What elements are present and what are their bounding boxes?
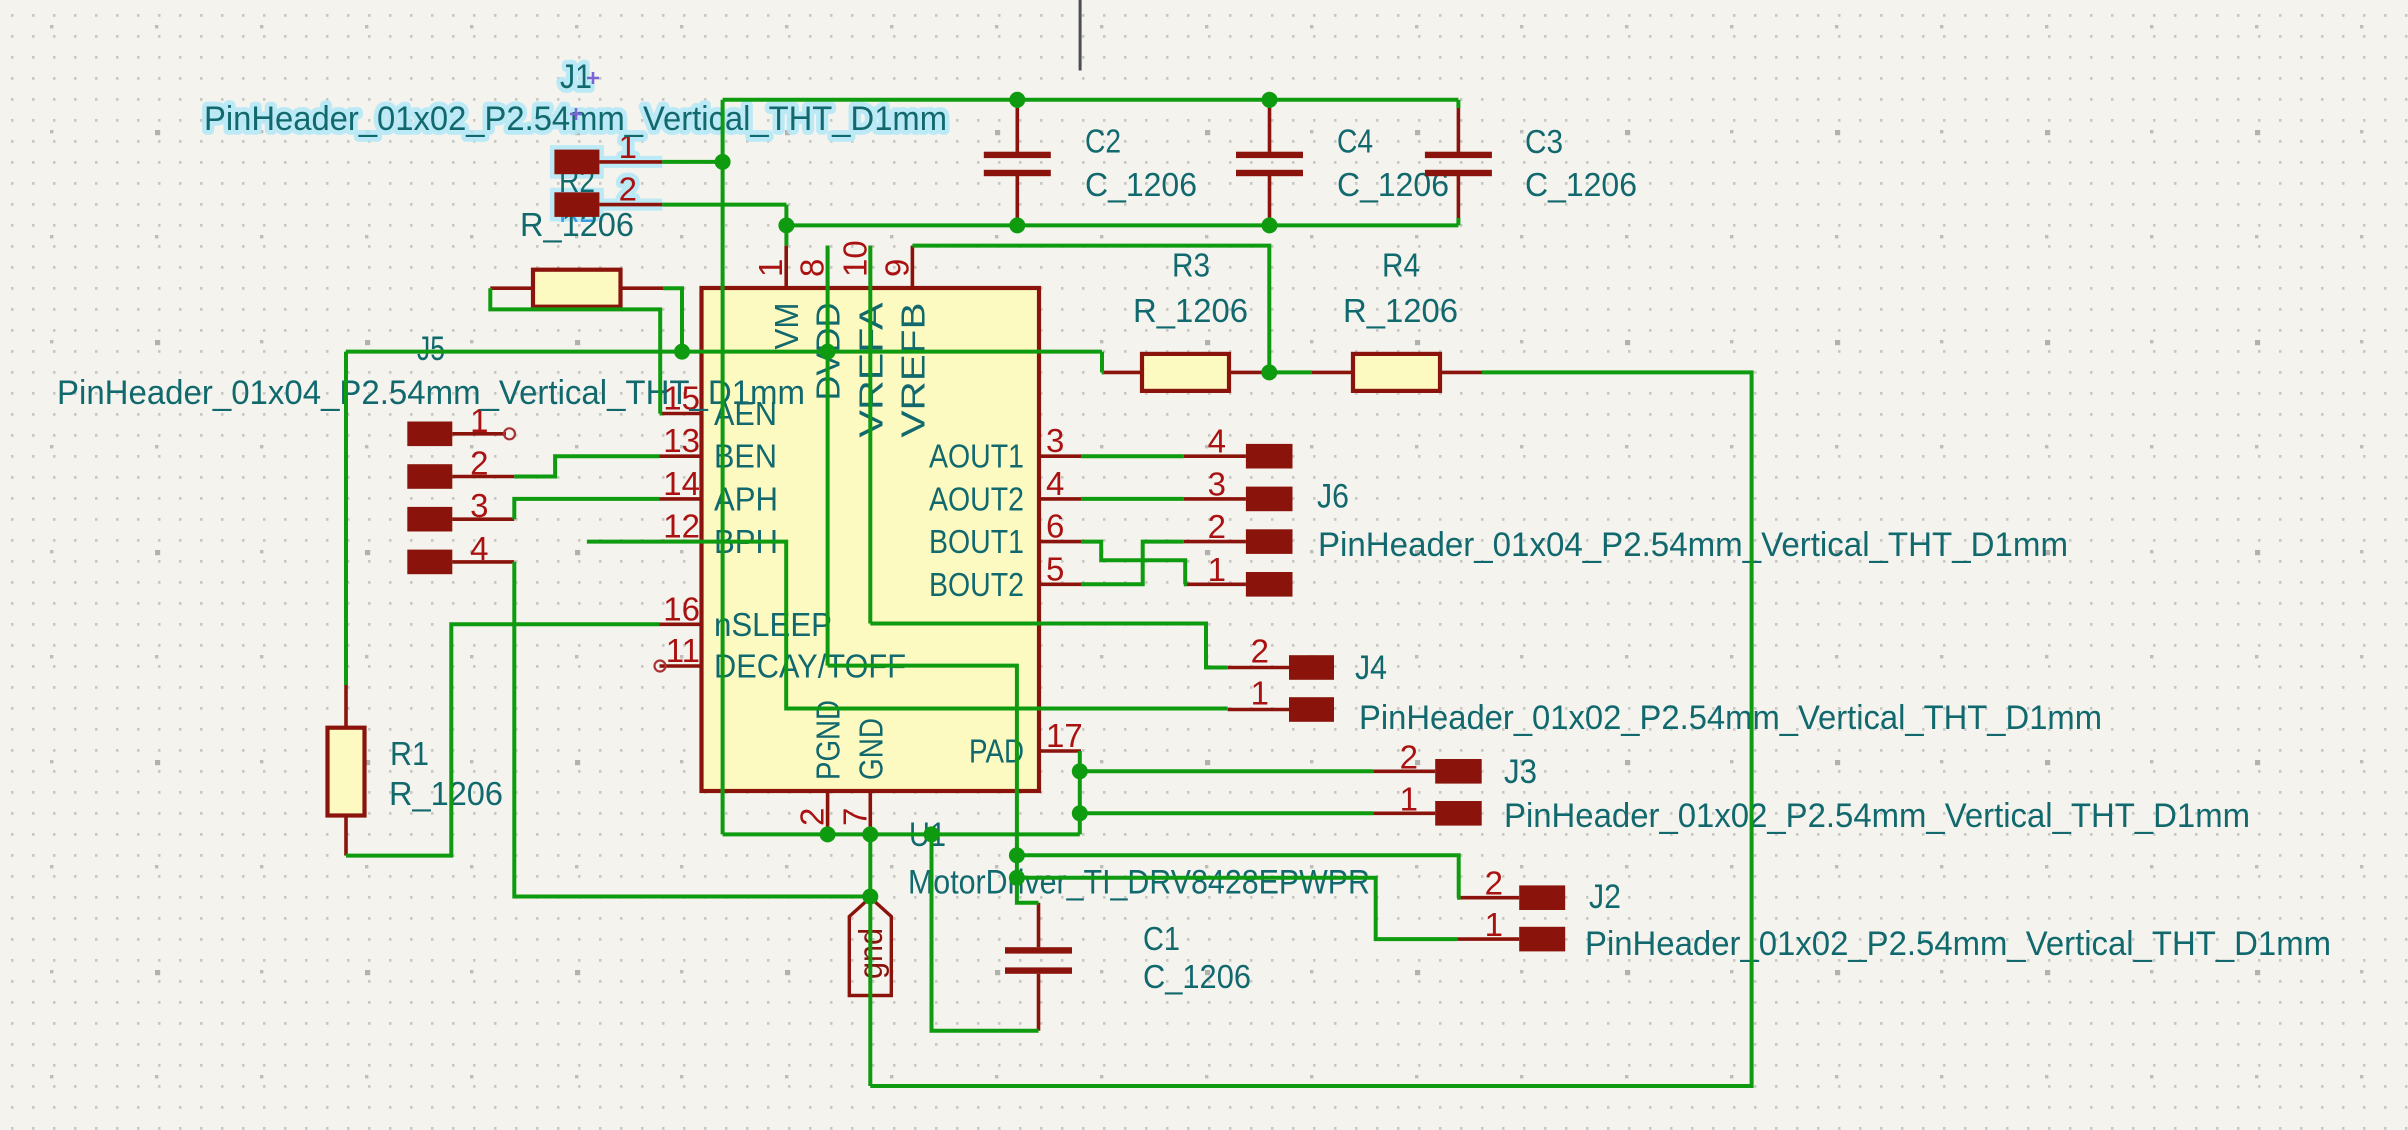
junction at 1079.8,813.3	[1072, 805, 1088, 821]
svg-text:6: 6	[1046, 508, 1064, 545]
U1 pin name VM	[768, 303, 805, 350]
U1 pin 11 unconnected circle	[655, 661, 666, 672]
svg-text:BOUT1: BOUT1	[929, 523, 1024, 560]
connector J4 pin 2 stub	[1228, 666, 1289, 670]
svg-text:3: 3	[1046, 422, 1064, 459]
wire C3 bottom connection	[1456, 218, 1460, 225]
svg-text:2: 2	[1251, 633, 1269, 670]
svg-text:AOUT1: AOUT1	[929, 438, 1024, 475]
wire gnd bus bottom of U1	[723, 832, 1080, 836]
U1 pin 17 stub	[1039, 749, 1081, 753]
connector J1 pad 1	[554, 150, 599, 175]
U1 pin 5 stub	[1039, 582, 1081, 586]
connector J5 pin 3 stub	[452, 517, 514, 521]
U1 pin name VREFA	[852, 303, 889, 438]
connector J4 pin 1 stub	[1228, 708, 1289, 712]
svg-text:R1: R1	[390, 735, 429, 772]
svg-text:14: 14	[663, 465, 700, 502]
wire J5 pad2 to BEN	[514, 456, 659, 476]
svg-text:AOUT2: AOUT2	[929, 480, 1024, 517]
wire main mid rail R2/DVDD/R3	[346, 350, 1102, 354]
U1 pin 7 stub	[868, 791, 872, 834]
svg-text:9: 9	[878, 259, 915, 277]
wire J5 pad3 to APH	[514, 499, 659, 519]
wire C2 bottom connection	[1015, 218, 1019, 225]
svg-text:R_1206: R_1206	[1133, 292, 1248, 329]
resistor R1 body	[328, 728, 365, 816]
svg-text:J3: J3	[1504, 753, 1537, 791]
wire C2 top connection	[1015, 100, 1019, 108]
wire J5 pad4 to gnd rail	[514, 562, 870, 897]
svg-text:7: 7	[836, 808, 873, 826]
svg-text:C_1206: C_1206	[1525, 166, 1637, 203]
svg-text:17: 17	[1046, 717, 1083, 754]
junction at 682,351.6	[674, 344, 690, 360]
svg-text:2: 2	[1400, 738, 1418, 775]
connector J6 pin 3 stub	[1184, 497, 1246, 501]
svg-text:PinHeader_01x04_P2.54mm_Vertic: PinHeader_01x04_P2.54mm_Vertical_THT_D1m…	[1318, 526, 2068, 564]
junction at 827.6,834.4	[820, 826, 836, 842]
svg-text:4: 4	[1046, 465, 1064, 502]
U1 pin 8 stub	[826, 246, 830, 288]
power symbol gnd label	[852, 928, 889, 979]
svg-text:2: 2	[794, 808, 831, 826]
selection halo J1	[204, 58, 947, 217]
U1 pin 10 stub	[868, 246, 872, 288]
svg-text:J4: J4	[1355, 649, 1387, 687]
U1 pin 13 stub	[660, 454, 702, 458]
connector J4 pad 1	[1289, 697, 1334, 722]
U1 pin number 9	[878, 259, 915, 277]
connector J5 pad 1	[407, 422, 452, 447]
svg-text:BOUT2: BOUT2	[929, 566, 1024, 603]
connector J3 pin 1 stub	[1373, 811, 1435, 815]
svg-text:2: 2	[1208, 508, 1226, 545]
wire C4 bottom connection	[1268, 218, 1272, 225]
wire PAD branch to J3 pad2	[1080, 769, 1373, 773]
svg-text:PinHeader_01x04_P2.54mm_Vertic: PinHeader_01x04_P2.54mm_Vertical_THT_D1m…	[57, 374, 805, 412]
svg-text:2: 2	[470, 445, 488, 482]
wire BPH to J4 pad1	[587, 542, 1228, 709]
svg-text:R3: R3	[1172, 247, 1210, 284]
svg-text:5: 5	[1046, 550, 1064, 587]
U1 pin 15 stub	[660, 412, 702, 416]
junction at 1016.9,855.3	[1009, 847, 1025, 863]
svg-text:C4: C4	[1337, 123, 1373, 160]
svg-text:GND: GND	[852, 718, 889, 780]
wire PAD branch to J3 pad1	[1080, 811, 1373, 815]
resistor R1 leads	[344, 685, 348, 728]
wire C4 top connection	[1268, 100, 1272, 108]
connector J5 pin 2 stub	[452, 475, 514, 479]
connector J5 pad 4	[407, 550, 452, 575]
connector J3 pad 1	[1435, 801, 1482, 826]
U1 pin 6 stub	[1039, 540, 1081, 544]
resistor R2 body	[533, 270, 621, 307]
wire AOUT2 to J6 pad3	[1081, 497, 1184, 501]
svg-text:1: 1	[1485, 906, 1503, 943]
junction at 1079.8,771.3	[1072, 763, 1088, 779]
svg-text:MotorDriver_TI_DRV8428EPWPR: MotorDriver_TI_DRV8428EPWPR	[908, 864, 1370, 902]
wire DVDD vertical	[826, 246, 830, 666]
connector J5 pin 1 unconnected circle	[504, 428, 515, 439]
wire gnd bus up to PAD pin	[1078, 751, 1082, 834]
IC U1 MotorDriver_TI_DRV8428EPWPR body	[702, 288, 1040, 791]
U1 pin 2 stub	[826, 791, 830, 834]
connector J6 pin 2 stub	[1184, 540, 1246, 544]
U1 pin number 1	[752, 259, 789, 277]
J1 field origin markers	[570, 72, 599, 120]
junction at 1269.3,372.4	[1261, 364, 1277, 380]
svg-text:8: 8	[794, 259, 831, 277]
wire VREFA vertical	[868, 246, 872, 624]
connector J6 pad 2	[1246, 529, 1293, 554]
connector J6 pin 1 stub	[1184, 582, 1246, 586]
U1 pin 14 stub	[660, 497, 702, 501]
svg-text:J5: J5	[417, 330, 445, 368]
resistor R2 leads	[490, 286, 533, 290]
junction at 931.5,834.4	[924, 826, 940, 842]
wire R2 left to AEN	[490, 288, 660, 413]
capacitor C3	[1457, 106, 1461, 152]
U1 pin number 7	[836, 808, 873, 826]
wire R2 right to mid rail	[663, 288, 682, 351]
svg-text:C1: C1	[1143, 920, 1180, 957]
connector J6 pin 4 stub	[1184, 454, 1246, 458]
svg-text:C2: C2	[1085, 123, 1121, 160]
capacitor C2	[1015, 106, 1019, 152]
connector J6 pad 3	[1246, 487, 1293, 512]
svg-text:12: 12	[663, 508, 700, 545]
svg-text:VM: VM	[768, 303, 805, 350]
svg-text:16: 16	[663, 590, 700, 627]
junction at 786.4,225.4	[778, 217, 794, 233]
svg-text:C_1206: C_1206	[1085, 166, 1197, 203]
wire J1 pad2 down to VM pin	[784, 205, 788, 246]
svg-text:3: 3	[1208, 465, 1226, 502]
wire AOUT1 to J6 pad4	[1081, 454, 1184, 458]
wire R1 top	[344, 352, 348, 685]
U1 pin number 8	[794, 259, 831, 277]
U1 pin name PGND	[810, 700, 847, 780]
wire BOUT2 to J6 pad2 crossover	[1081, 542, 1184, 585]
sheet border line	[1079, 0, 1082, 71]
junction at 722.6,161.9	[715, 154, 731, 170]
wire R3 to junction	[1269, 370, 1312, 374]
svg-text:PinHeader_01x02_P2.54mm_Vertic: PinHeader_01x02_P2.54mm_Vertical_THT_D1m…	[1585, 925, 2331, 963]
U1 pin 11 stub	[660, 664, 702, 668]
U1 pin name VREFB	[894, 303, 931, 438]
U1 pin 16 stub	[660, 622, 702, 626]
connector J5 pad 2	[407, 464, 452, 489]
resistor R4 body	[1353, 354, 1440, 391]
wire DVDD to C1 top	[828, 666, 1039, 903]
svg-text:VREFB: VREFB	[894, 303, 931, 438]
wire C1 net to J2 pad1	[1017, 878, 1457, 939]
wire R1 bottom to nSLEEP	[346, 624, 660, 855]
svg-text:11: 11	[666, 632, 700, 669]
U1 pin name DVDD	[810, 303, 847, 401]
svg-text:1: 1	[752, 259, 789, 277]
connector J5 pin 1 stub	[452, 432, 506, 436]
svg-text:J2: J2	[1589, 878, 1621, 916]
connector J3 pin 2 stub	[1373, 769, 1435, 773]
connector J1 pad 2	[554, 192, 599, 217]
junction at 1016.9,877.8	[1009, 870, 1025, 886]
capacitor C4	[1268, 106, 1272, 152]
capacitor C1	[1037, 903, 1041, 947]
junction at 870.3,834.4	[862, 826, 878, 842]
wire C3 top connection	[1456, 100, 1460, 108]
U1 pin 1 stub	[784, 246, 788, 288]
wire J1 pad2 horizontal	[662, 203, 786, 207]
U1 pin number 2	[794, 808, 831, 826]
junction at 827.6,351.6	[820, 344, 836, 360]
svg-text:4: 4	[470, 530, 488, 567]
svg-text:4: 4	[1208, 423, 1226, 460]
svg-text:3: 3	[470, 487, 488, 524]
wire R4 to right vertical	[870, 372, 1751, 1086]
svg-text:2: 2	[1485, 865, 1503, 902]
U1 pin 9 stub	[911, 246, 915, 288]
wire gnd symbol vertical	[868, 834, 872, 1086]
svg-text:1: 1	[1400, 780, 1418, 817]
connector J5 pad 3	[407, 507, 452, 532]
wire top supply bus	[723, 98, 1459, 102]
wire VREFA to J4 pad2	[870, 624, 1227, 668]
junction at 1269.5,225.4	[1262, 217, 1278, 233]
wire BOUT1 to J6 pad1 crossover	[1081, 542, 1185, 585]
junction at 1017.3,99.8	[1009, 92, 1025, 108]
power symbol gnd outline	[849, 898, 891, 996]
wire mid rail down to R3	[1100, 352, 1104, 373]
svg-text:R4: R4	[1382, 247, 1420, 284]
wire long vertical from top bus to gnd bus	[721, 100, 725, 835]
connector J2 pad 1	[1519, 927, 1565, 952]
svg-text:2: 2	[619, 171, 637, 208]
junction at 1269.5,99.8	[1262, 92, 1278, 108]
U1 pin name GND	[852, 718, 889, 780]
svg-text:C3: C3	[1525, 123, 1563, 160]
connector J2 pin 2 stub	[1457, 896, 1519, 900]
connector J1 pin 1 stub	[599, 160, 662, 164]
junction at 870.3,896.5	[862, 889, 878, 905]
connector J3 pad 2	[1435, 759, 1482, 784]
svg-text:13: 13	[663, 422, 700, 459]
wire capacitor bottom bus	[786, 223, 1458, 227]
connector J2 pad 2	[1519, 885, 1565, 910]
wire J1 pad1 to vertical	[662, 160, 722, 164]
svg-text:C_1206: C_1206	[1143, 958, 1251, 995]
U1 pin number 10	[836, 240, 873, 277]
junction at 1017.3,225.4	[1009, 217, 1025, 233]
connector J5 pin 4 stub	[452, 560, 514, 564]
wire VREFB pin to divider	[912, 246, 1269, 373]
U1 pin 3 stub	[1039, 454, 1081, 458]
connector J2 pin 1 stub	[1457, 937, 1519, 941]
wire gnd branch to C1 bottom	[932, 834, 1039, 1030]
wire C1 net to J2 pad2	[1017, 855, 1459, 897]
connector J1 pin 2 stub	[599, 203, 662, 207]
svg-text:PinHeader_01x02_P2.54mm_Vertic: PinHeader_01x02_P2.54mm_Vertical_THT_D1m…	[1359, 699, 2102, 737]
resistor R3 leads	[1102, 371, 1142, 375]
svg-text:R_1206: R_1206	[1343, 292, 1458, 329]
U1 pin 4 stub	[1039, 497, 1081, 501]
svg-text:PinHeader_01x02_P2.54mm_Vertic: PinHeader_01x02_P2.54mm_Vertical_THT_D1m…	[1504, 797, 2250, 835]
connector J6 pad 1	[1246, 572, 1293, 597]
svg-text:nSLEEP: nSLEEP	[714, 606, 832, 643]
svg-text:J6: J6	[1317, 478, 1349, 516]
U1 pin 12 stub	[660, 540, 702, 544]
svg-text:10: 10	[836, 240, 873, 277]
connector J6 pad 4	[1246, 444, 1293, 469]
svg-text:1: 1	[1208, 551, 1226, 588]
svg-text:R_1206: R_1206	[389, 775, 503, 812]
svg-text:PGND: PGND	[810, 700, 847, 780]
resistor R3 body	[1142, 354, 1229, 391]
connector J4 pad 2	[1289, 655, 1334, 680]
resistor R4 leads	[1312, 371, 1353, 375]
svg-text:1: 1	[1251, 675, 1269, 712]
